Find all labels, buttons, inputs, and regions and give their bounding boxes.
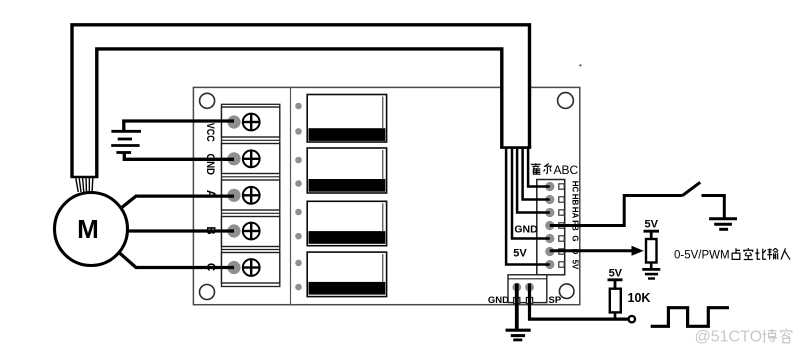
svg-text:5V: 5V — [513, 248, 527, 260]
wire FB to switch — [550, 196, 683, 226]
svg-text:GND: GND — [488, 295, 509, 306]
ground (J3 GND) — [506, 330, 531, 340]
wire SP to node — [530, 284, 628, 320]
hall cable sheath fill — [72, 25, 530, 177]
svg-text:SP: SP — [549, 295, 562, 306]
pin HA — [545, 208, 564, 217]
PWM waveform — [651, 308, 729, 327]
terminal cell B — [222, 217, 280, 247]
switch S1 lever — [683, 182, 701, 195]
wire R1 to node — [614, 312, 617, 319]
svg-text:HA: HA — [571, 207, 580, 219]
pin 5V — [545, 260, 564, 269]
svg-text:5V: 5V — [644, 218, 658, 230]
MOSFET module 3 — [295, 201, 386, 245]
wire motor phase B — [127, 229, 234, 232]
glyph kong (空) — [743, 248, 753, 260]
svg-text:0-5V/PWM: 0-5V/PWM — [674, 250, 730, 262]
hall wire GND (bundle) — [512, 148, 550, 239]
glyph ru (入) — [781, 248, 790, 259]
mounting hole bottom-left — [200, 285, 215, 300]
MOSFET module 1 — [295, 95, 386, 143]
glyph zhan (占) — [732, 248, 740, 259]
open terminal (PWM input) — [629, 316, 635, 322]
pin HB — [545, 195, 564, 204]
wire battery+ to VCC — [124, 121, 234, 131]
cable end cap at motor — [70, 176, 98, 178]
cable strands at motor — [76, 178, 93, 193]
glyph ke (客) watermark — [780, 329, 793, 343]
svg-text:@51CTO: @51CTO — [695, 329, 763, 346]
MOSFET module 2 — [295, 148, 386, 193]
potentiometer wiper arrow — [632, 246, 644, 256]
resistor R1 10K — [610, 289, 621, 313]
hall wire HC (bundle) — [528, 148, 550, 187]
glyph huo (霍) — [531, 163, 541, 174]
hall cable outer outline — [72, 25, 530, 177]
terminal cell C — [222, 253, 280, 284]
wire D to potentiometer wiper — [550, 249, 632, 252]
potentiometer RV1 body — [646, 239, 657, 263]
board divider line — [290, 87, 292, 304]
wire motor phase A — [121, 196, 235, 208]
motor M — [55, 193, 128, 266]
switch S1 right contact — [702, 196, 725, 218]
glyph bi (比) — [755, 249, 766, 260]
svg-text:HC: HC — [571, 181, 580, 193]
terminal cell GND — [222, 144, 280, 174]
ground (switch) — [709, 219, 737, 230]
5V rail bar (pull-up) — [608, 280, 623, 289]
pin G — [545, 234, 564, 243]
svg-text:VCC: VCC — [204, 123, 216, 142]
svg-text:5V: 5V — [609, 268, 623, 280]
svg-text:ABC: ABC — [554, 163, 579, 177]
pin D — [545, 247, 564, 256]
mounting hole bottom-right — [559, 284, 574, 299]
cable end cap at board — [500, 146, 531, 149]
terminal cell A — [222, 180, 280, 210]
stray dot artifact — [579, 64, 581, 66]
hall wire HB (bundle) — [523, 148, 550, 200]
wire motor phase C — [119, 253, 234, 268]
glyph er (尔) — [544, 164, 552, 174]
mounting hole top-right — [558, 93, 574, 109]
svg-text:G: G — [571, 235, 580, 241]
battery BT1 — [111, 131, 141, 152]
glyph shu (输) — [767, 248, 778, 259]
terminal cell VCC — [222, 107, 280, 137]
connector J3 (GND/SP) — [508, 275, 547, 304]
wire battery- to GND — [124, 153, 234, 160]
hall wire 5V (bundle) — [506, 148, 550, 265]
svg-text:HB: HB — [571, 194, 580, 206]
hall connector header J2 — [537, 180, 565, 275]
mounting hole top-left — [200, 93, 215, 108]
5V rail bar (potentiometer) — [644, 231, 660, 239]
svg-text:GND: GND — [514, 223, 538, 235]
pin FB — [545, 221, 564, 230]
terminal block outer — [222, 104, 280, 286]
svg-text:5V: 5V — [571, 260, 580, 270]
wire GND pin down — [515, 284, 519, 330]
svg-text:10K: 10K — [628, 291, 651, 305]
terminal block separator lines — [222, 140, 280, 249]
hall wire HA (bundle) — [517, 148, 550, 213]
PCB board outline — [193, 87, 579, 304]
MOSFET module 4 — [295, 252, 386, 297]
glyph bo (博) watermark — [762, 329, 777, 343]
svg-text:M: M — [77, 214, 99, 244]
hall cable inner outline — [97, 49, 502, 177]
pin HC — [545, 182, 564, 191]
svg-text:GND: GND — [204, 154, 216, 176]
ground (potentiometer) — [642, 263, 660, 279]
